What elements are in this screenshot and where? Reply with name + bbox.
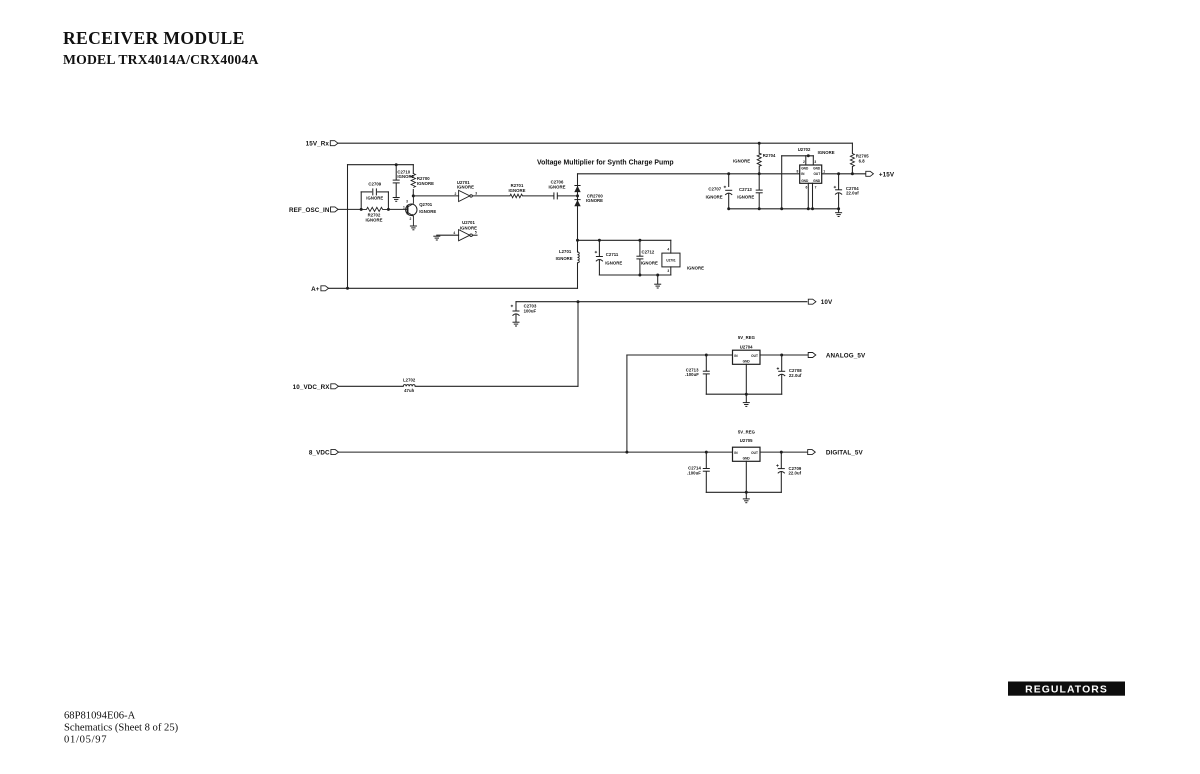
wire U2702 top loop horizontal [782, 155, 814, 157]
wire C2710 to ground [395, 183, 397, 197]
resistor R2701 [508, 183, 525, 198]
svg-text:IGNORE: IGNORE [419, 209, 436, 214]
wire U2705 gnd pin drop [745, 461, 747, 492]
wire C2713 top lead [758, 174, 760, 190]
svg-text:IN: IN [801, 172, 805, 176]
svg-text:GND: GND [743, 457, 751, 461]
wire C2712 bottom lead [639, 259, 641, 275]
svg-text:U2704: U2704 [740, 344, 753, 349]
svg-text:3: 3 [406, 199, 408, 203]
node ANALOG_5V [808, 353, 866, 360]
svg-text:C2713: C2713 [739, 187, 752, 192]
wire C2710 hanger [395, 165, 397, 180]
inductor L2702 [403, 377, 416, 393]
ground analog regulator [743, 403, 750, 407]
wire C2711 top lead [598, 240, 600, 256]
wire U2704 gnd pin drop [745, 364, 747, 394]
capacitor C2706 [548, 179, 565, 199]
capacitor C2710 [393, 169, 415, 183]
svg-text:U2705: U2705 [740, 438, 753, 443]
svg-text:IGNORE: IGNORE [548, 184, 565, 189]
svg-text:IGNORE: IGNORE [737, 195, 754, 200]
svg-text:ANALOG_5V: ANALOG_5V [826, 353, 866, 360]
wire R2705 drop from top rail [851, 143, 853, 153]
wire U2705 output [760, 451, 807, 453]
wire C2713 bottom lead [758, 193, 760, 209]
wire charge pump ground stub [657, 275, 659, 284]
svg-text:IGNORE: IGNORE [366, 196, 383, 201]
svg-text:Q2701: Q2701 [419, 202, 433, 207]
svg-text:47uh: 47uh [404, 388, 414, 393]
svg-text:2: 2 [803, 160, 805, 164]
wire L2702 to vertical riser [415, 385, 578, 387]
ground below C2710 [393, 198, 400, 202]
wire C2703 bottom lead [515, 315, 517, 322]
wire multiplier ground stub [838, 209, 840, 213]
svg-text:6: 6 [806, 185, 808, 189]
wire C2706 to diode node [558, 195, 578, 197]
wire regulators feed vertical [626, 355, 628, 452]
svg-text:3: 3 [475, 191, 477, 195]
svg-text:22.0uf: 22.0uf [789, 373, 802, 378]
wire C2704 top lead [838, 174, 840, 190]
wire R2704 to rail [758, 166, 760, 174]
svg-text:IGNORE: IGNORE [417, 181, 434, 186]
svg-text:IGNORE: IGNORE [586, 198, 603, 203]
regulator U2702 [796, 147, 834, 189]
svg-text:4: 4 [453, 231, 455, 235]
capacitor C2708 [777, 367, 803, 378]
wire C2707 bottom lead [728, 194, 730, 209]
wire 10V rail [516, 301, 807, 303]
wire U2701 box top pin riser [670, 240, 672, 253]
wire C2704 bottom lead [838, 193, 840, 209]
svg-text:IN: IN [734, 451, 738, 455]
svg-text:GND: GND [743, 360, 751, 364]
capacitor C2704 [834, 186, 860, 196]
svg-text:GND: GND [801, 179, 809, 183]
node 8_VDC [309, 450, 339, 457]
wire +15V rail left segment [578, 173, 800, 175]
junction dots [346, 142, 854, 494]
wire inverter1 output to R2701 [472, 195, 510, 197]
svg-text:Voltage Multiplier for Synth C: Voltage Multiplier for Synth Charge Pump [537, 159, 674, 166]
node A+ [311, 286, 328, 293]
wire parallel RC right riser [387, 192, 389, 210]
svg-text:3: 3 [814, 160, 816, 164]
svg-text:IGNORE: IGNORE [508, 188, 525, 193]
svg-text:C2709: C2709 [368, 181, 381, 186]
svg-text:10V: 10V [821, 299, 833, 306]
wire R2701 to C2706 [523, 195, 554, 197]
svg-text:3: 3 [667, 269, 669, 273]
op-amp U2701 inverter A [454, 180, 477, 201]
svg-text:4: 4 [667, 248, 669, 252]
wire U2702 bottom pin 7 drop [812, 183, 814, 209]
wire L2701 bottom to A+ [577, 263, 579, 289]
svg-text:REF_OSC_IN: REF_OSC_IN [289, 207, 330, 214]
wire L2701 top lead [577, 240, 579, 252]
op-amp U2701 box [662, 248, 704, 273]
wire feedback loop top [348, 164, 414, 166]
wire parallel RC left riser [360, 192, 362, 210]
capacitor C2714 [687, 466, 710, 476]
svg-text:GND: GND [813, 179, 821, 183]
svg-text:8_VDC: 8_VDC [309, 450, 330, 457]
wire U2704 input rail [627, 354, 733, 356]
ground below Q2701 emitter [410, 226, 417, 230]
wire R2700 bottom lead [412, 190, 414, 196]
inductor L2701 [556, 249, 580, 263]
wire R2704 top lead [758, 143, 760, 153]
svg-text:+15V: +15V [879, 171, 895, 178]
svg-text:IGNORE: IGNORE [365, 218, 382, 223]
svg-text:5V_REG: 5V_REG [738, 335, 756, 340]
svg-text:2: 2 [409, 217, 411, 221]
ground charge pump box [654, 284, 661, 288]
wire 10_VDC_RX lead-in [338, 385, 403, 387]
wire 15V_Rx top rail [338, 142, 853, 144]
svg-text:IGNORE: IGNORE [818, 150, 835, 155]
capacitor C2713 [737, 187, 762, 200]
svg-text:IGNORE: IGNORE [605, 260, 622, 265]
svg-text:U2701: U2701 [462, 220, 475, 225]
wire U2702 top pin 3 riser [812, 156, 814, 165]
svg-text:2: 2 [454, 192, 456, 196]
ground multiplier rail [835, 213, 842, 217]
wire analog reg ground stub [745, 394, 747, 402]
capacitor C2709 [366, 181, 383, 200]
ground below C2703 [513, 322, 520, 326]
node REF_OSC_IN [289, 207, 338, 214]
svg-text:GND: GND [813, 166, 821, 170]
svg-text:IGNORE: IGNORE [457, 185, 474, 190]
wire R2705 to +15V rail [851, 167, 853, 174]
svg-text:8: 8 [796, 169, 798, 173]
wire C2709 top branch left [361, 191, 371, 193]
svg-text:5: 5 [475, 231, 477, 235]
svg-text:IGNORE: IGNORE [733, 159, 750, 164]
wire digital reg ground stub [745, 492, 747, 498]
node +15V [866, 171, 895, 178]
svg-text:R2704: R2704 [763, 153, 776, 158]
wire U2701 box bottom pin drop [670, 267, 672, 275]
capacitor C2707 [706, 186, 733, 200]
wire +15V rail right segment [822, 173, 866, 175]
capacitor C2711 [595, 251, 623, 265]
svg-text:5V_REG: 5V_REG [738, 429, 756, 434]
wire analog reg bottom rail [706, 393, 781, 395]
svg-text:A+: A+ [311, 286, 320, 293]
svg-text:Schematics (Sheet 8 of 25): Schematics (Sheet 8 of 25) [64, 723, 179, 734]
wire C2708 bottom lead [781, 375, 783, 395]
svg-text:22.0uf: 22.0uf [846, 191, 859, 196]
wire C2703 top lead [515, 302, 517, 311]
resistor R2702 [361, 207, 388, 222]
wire C2708 top lead [781, 355, 783, 371]
wire C2711 bottom lead [598, 260, 600, 275]
wire base of Q2701 [388, 208, 407, 210]
capacitor C2703 [511, 304, 537, 316]
wire U2704 output [760, 354, 808, 356]
wire U2702 top pin 2 riser [805, 156, 807, 165]
node 10_VDC_RX [293, 384, 339, 391]
svg-text:OUT: OUT [813, 172, 820, 176]
wire C2714 bottom lead [705, 472, 707, 493]
wire C2713b top lead [705, 355, 707, 371]
svg-text:L2702: L2702 [403, 377, 416, 382]
svg-text:100uF: 100uF [524, 309, 537, 314]
node 10V [808, 299, 833, 306]
node 15V_Rx [306, 141, 338, 148]
wire C2712 top lead [639, 240, 641, 256]
wire REF_OSC_IN to parallel RC [338, 208, 361, 210]
diode CR2700 dual [574, 186, 603, 207]
capacitor C2712 [636, 250, 658, 266]
svg-text:C2711: C2711 [606, 252, 619, 257]
wire feedback loop left vertical [347, 165, 349, 289]
svg-text:MODEL TRX4014A/CRX4004A: MODEL TRX4014A/CRX4004A [63, 52, 259, 67]
wire C2707 top lead [728, 174, 730, 187]
svg-text:6.8: 6.8 [859, 158, 866, 163]
resistor R2700 [411, 174, 434, 188]
svg-text:U2701: U2701 [666, 259, 676, 263]
regulator U2704 [733, 335, 761, 364]
svg-text:U2702: U2702 [798, 147, 811, 152]
ground digital regulator [743, 499, 750, 503]
ground at inverter B input [433, 236, 440, 240]
svg-text:IGNORE: IGNORE [687, 265, 704, 270]
resistor R2705 [850, 154, 869, 167]
wire A+ rail [329, 287, 578, 289]
wire C2709b top lead [780, 452, 782, 468]
wire inverter2 output stub [472, 234, 477, 236]
wire collector node to inverter input [413, 195, 458, 197]
wire C2714 top lead [705, 452, 707, 468]
wire C2709b bottom lead [780, 472, 782, 492]
svg-text:DIGITAL_5V: DIGITAL_5V [826, 450, 864, 457]
svg-text:.100uF: .100uF [685, 372, 699, 377]
svg-text:REGULATORS: REGULATORS [1025, 684, 1108, 695]
svg-text:.100uF: .100uF [687, 471, 701, 476]
wire inverter2 ground lead [437, 234, 459, 237]
wire C2713b bottom lead [705, 374, 707, 394]
wire charge pump node horizontal [578, 239, 671, 241]
svg-text:IGNORE: IGNORE [641, 260, 658, 265]
svg-text:IN: IN [734, 354, 738, 358]
wire R2700 top lead [412, 165, 414, 174]
wire C2709 top branch right [378, 191, 389, 193]
wire multiplier ground rail [729, 208, 839, 210]
svg-text:68P81094E06-A: 68P81094E06-A [64, 710, 136, 721]
svg-text:OUT: OUT [751, 354, 758, 358]
capacitor C2713b [685, 367, 710, 377]
svg-text:1: 1 [823, 169, 825, 173]
wire U2702 bottom pin 6 drop [807, 183, 809, 209]
regulator U2705 [733, 429, 761, 461]
svg-text:C2707: C2707 [708, 186, 721, 191]
svg-text:OUT: OUT [751, 451, 758, 455]
svg-text:L2701: L2701 [559, 249, 572, 254]
wire digital reg bottom rail [706, 491, 781, 493]
svg-text:RECEIVER MODULE: RECEIVER MODULE [63, 28, 245, 48]
REGULATORS title block [1008, 682, 1125, 696]
wire 10V to 10_VDC_RX vertical [577, 302, 579, 387]
svg-text:10_VDC_RX: 10_VDC_RX [293, 384, 331, 391]
svg-text:IGNORE: IGNORE [706, 194, 723, 199]
node DIGITAL_5V [808, 450, 864, 457]
svg-text:1: 1 [403, 205, 405, 209]
wire U2702 left bypass vertical [781, 156, 783, 209]
transistor Q2701 [403, 196, 436, 226]
svg-text:22.0uf: 22.0uf [789, 471, 802, 476]
svg-text:C2712: C2712 [642, 250, 655, 255]
wire charge pump bottom rail [599, 274, 670, 276]
svg-text:7: 7 [815, 185, 817, 189]
capacitor C2709b [776, 464, 802, 475]
wire diode chain vertical [577, 174, 579, 241]
resistor R2704 [733, 153, 776, 166]
svg-text:IGNORE: IGNORE [556, 256, 573, 261]
op-amp U2701 inverter B [453, 220, 477, 241]
svg-text:15V_Rx: 15V_Rx [306, 141, 330, 148]
svg-text:GND: GND [801, 166, 809, 170]
wire 8_VDC rail [339, 451, 733, 453]
svg-text:01/05/97: 01/05/97 [64, 735, 107, 746]
